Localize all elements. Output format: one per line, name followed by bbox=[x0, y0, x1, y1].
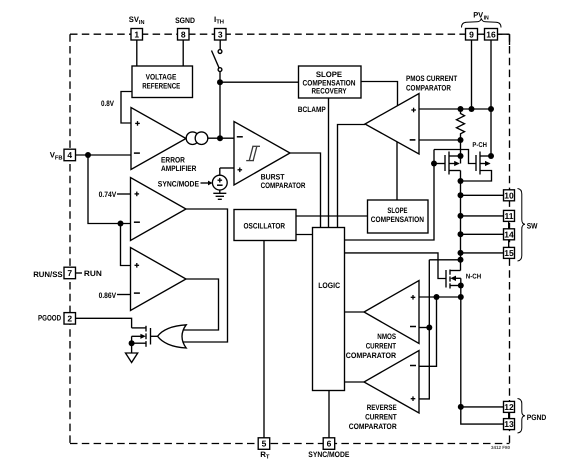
wire 0.74V label line bbox=[117, 193, 131, 195]
pin 16 PVIN box bbox=[485, 29, 498, 41]
svg-text:10: 10 bbox=[504, 190, 514, 200]
node sense fet source bbox=[458, 153, 464, 159]
wire reverse - tap bbox=[419, 297, 437, 366]
svg-text:REFERENCE: REFERENCE bbox=[142, 82, 180, 91]
wire 0.86V label line bbox=[117, 294, 131, 296]
wire pmos - to sense node bbox=[419, 139, 461, 141]
wire error amp output to burst comparator - bbox=[208, 137, 234, 139]
N-CH fet bbox=[446, 270, 461, 289]
node P gate bbox=[431, 161, 437, 167]
svg-text:3412 F80: 3412 F80 bbox=[491, 445, 511, 450]
svg-text:RUN: RUN bbox=[84, 269, 102, 278]
svg-text:P-CH: P-CH bbox=[472, 142, 487, 149]
svg-text:BCLAMP: BCLAMP bbox=[298, 105, 326, 114]
ground pgood bbox=[126, 343, 138, 362]
node SW drain junction bbox=[458, 178, 464, 184]
wire pmos comparator output to logic bbox=[338, 125, 366, 228]
svg-text:SYNC/MODE: SYNC/MODE bbox=[308, 450, 349, 459]
wire BCLAMP to logic bbox=[328, 98, 330, 228]
wire node down to error amp output bbox=[219, 82, 221, 138]
svg-text:N-CH: N-CH bbox=[466, 274, 481, 281]
pin 7 RUN/SS box bbox=[64, 267, 76, 279]
OR gate bbox=[158, 325, 187, 348]
svg-text:SYNC/MODE: SYNC/MODE bbox=[158, 180, 199, 189]
svg-text:3: 3 bbox=[218, 29, 223, 39]
pin 3 ITH box bbox=[215, 29, 227, 41]
slope compensation recovery box bbox=[299, 66, 362, 98]
svg-text:14: 14 bbox=[504, 229, 514, 239]
PGND brace bbox=[518, 399, 526, 434]
sense resistor bbox=[457, 109, 465, 140]
svg-text:NMOS: NMOS bbox=[377, 332, 396, 341]
wire to pin13 bbox=[461, 407, 504, 424]
node rail junctions bbox=[458, 106, 464, 112]
logic box bbox=[313, 228, 345, 391]
svg-text:7: 7 bbox=[67, 268, 72, 278]
pin 4 VFB box bbox=[64, 149, 76, 161]
slope compensation box bbox=[368, 200, 429, 233]
svg-text:REVERSE: REVERSE bbox=[367, 403, 397, 412]
pin 13 PGND box bbox=[504, 419, 515, 430]
svg-text:0.8V: 0.8V bbox=[101, 99, 115, 108]
pin 11 SW box bbox=[504, 210, 515, 221]
hysteresis symbol bbox=[246, 146, 260, 160]
wire to pin15 bbox=[461, 252, 504, 254]
pin 10 SW box bbox=[504, 190, 515, 201]
PGND bus bbox=[460, 286, 462, 407]
wire ITH pin3 to switch bbox=[219, 40, 221, 50]
wire slope compensation to pmos comparator bbox=[396, 142, 398, 200]
wire burst comparator output to logic bbox=[290, 153, 321, 228]
node N source bbox=[458, 283, 464, 289]
pgood pulldown fet bbox=[132, 326, 151, 347]
svg-text:6: 6 bbox=[327, 439, 332, 449]
svg-text:PGND: PGND bbox=[527, 413, 547, 422]
svg-text:8: 8 bbox=[181, 29, 186, 39]
node ITH/BCLAMP junction bbox=[217, 79, 223, 85]
svg-text:RECOVERY: RECOVERY bbox=[312, 87, 348, 96]
svg-text:OSCILLATOR: OSCILLATOR bbox=[244, 222, 286, 231]
svg-text:5: 5 bbox=[262, 439, 267, 449]
node sense - bbox=[458, 137, 464, 143]
node main fet source bbox=[488, 153, 494, 159]
wire pin16 down to P-CH source bbox=[490, 40, 492, 156]
error amplifier bbox=[131, 108, 186, 170]
svg-text:ERROR: ERROR bbox=[161, 155, 185, 164]
svg-text:COMPARATOR: COMPARATOR bbox=[261, 181, 306, 190]
SW bus bbox=[460, 181, 462, 271]
wire VFB pin4 to error amp - bbox=[76, 154, 132, 156]
svg-text:12: 12 bbox=[504, 402, 514, 412]
svg-text:COMPENSATION: COMPENSATION bbox=[371, 215, 424, 224]
wire VFB branch to 0.86V comparator + bbox=[121, 224, 131, 266]
svg-text:9: 9 bbox=[469, 29, 474, 39]
pin 14 SW box bbox=[504, 229, 515, 240]
wire 0.8V reference to error amp + bbox=[121, 92, 132, 124]
wire pmos + to PVIN rail bbox=[419, 108, 491, 110]
wire RUN stub bbox=[76, 272, 83, 274]
wire P-CH gates tied bbox=[434, 163, 445, 165]
wire oscillator to logic bbox=[296, 234, 313, 236]
P-CH sense fet bbox=[445, 152, 461, 182]
wire reverse output to logic bbox=[345, 381, 365, 383]
node VFB branch bbox=[118, 221, 124, 227]
svg-text:0.74V: 0.74V bbox=[99, 190, 117, 199]
node VFB bbox=[85, 152, 91, 158]
wire recovery to pmos comparator bbox=[361, 82, 398, 106]
svg-text:LOGIC: LOGIC bbox=[318, 281, 340, 290]
pin 12 PGND box bbox=[504, 401, 515, 412]
wire RT pin5 to oscillator bbox=[263, 241, 265, 438]
wire OR output to pgood fet gate bbox=[151, 335, 158, 337]
wire to pin11 bbox=[461, 215, 504, 217]
svg-text:2: 2 bbox=[67, 313, 72, 323]
svg-text:COMPARATOR: COMPARATOR bbox=[346, 351, 397, 360]
svg-text:13: 13 bbox=[504, 419, 514, 429]
wire pin8 to voltage reference bbox=[182, 40, 184, 66]
0.74V comparator bbox=[131, 178, 187, 241]
svg-text:PMOS CURRENT: PMOS CURRENT bbox=[406, 74, 457, 83]
wire sense node to sense fet source bbox=[460, 140, 462, 164]
svg-text:VOLTAGE: VOLTAGE bbox=[146, 72, 177, 81]
svg-text:SGND: SGND bbox=[175, 16, 195, 25]
pmos current comparator bbox=[365, 94, 419, 155]
svg-text:4: 4 bbox=[67, 150, 72, 160]
wire nmos + to pgnd bbox=[419, 296, 461, 298]
P-CH main fet bbox=[461, 152, 492, 182]
wire 0.74V output to OR gate bbox=[182, 209, 228, 342]
svg-text:CURRENT: CURRENT bbox=[365, 413, 397, 422]
nmos current comparator bbox=[364, 281, 419, 344]
svg-text:AMPLIFIER: AMPLIFIER bbox=[161, 164, 197, 173]
voltage reference box bbox=[132, 66, 193, 98]
pin 8 SGND box bbox=[178, 29, 190, 41]
pin 1 SVIN box bbox=[131, 29, 143, 41]
svg-text:SLOPE: SLOPE bbox=[387, 206, 407, 215]
wire 0.86V output to OR gate bbox=[182, 279, 219, 330]
svg-text:PV: PV bbox=[473, 11, 484, 20]
0.86V comparator bbox=[131, 248, 187, 311]
node error amp output / ITH bbox=[217, 135, 223, 141]
solid border near PVIN corner bbox=[478, 34, 510, 418]
wire SW sense tap bbox=[429, 259, 460, 261]
svg-text:15: 15 bbox=[504, 248, 514, 258]
ground below sync/mode source bbox=[213, 190, 226, 199]
wire pgood pin2 to fet drain bbox=[76, 318, 132, 328]
SW brace bbox=[518, 189, 526, 262]
wire to pin12 bbox=[461, 406, 504, 408]
svg-text:0.86V: 0.86V bbox=[99, 291, 117, 300]
wire pin1 to voltage reference bbox=[136, 40, 138, 66]
wire node to slope compensation recovery bbox=[220, 81, 299, 83]
pin 15 SW box bbox=[504, 247, 515, 258]
svg-text:PGOOD: PGOOD bbox=[38, 314, 61, 323]
wire nmos output to logic bbox=[345, 311, 365, 313]
reverse current comparator bbox=[364, 351, 419, 414]
svg-text:1: 1 bbox=[134, 29, 139, 39]
svg-text:COMPARATOR: COMPARATOR bbox=[406, 83, 451, 92]
svg-text:SW: SW bbox=[527, 221, 538, 230]
wire VFB down to 0.74V comparator - bbox=[88, 155, 131, 224]
svg-text:COMPARATOR: COMPARATOR bbox=[349, 422, 397, 431]
pin 2 PGOOD box bbox=[64, 313, 76, 325]
svg-text:RUN/SS: RUN/SS bbox=[33, 270, 62, 279]
PVIN brace bbox=[462, 18, 502, 27]
svg-text:CURRENT: CURRENT bbox=[366, 341, 397, 350]
pin 6 SYNC/MODE box bbox=[323, 438, 335, 450]
sync/mode offset source bbox=[201, 168, 235, 190]
wire pin9 down bbox=[471, 40, 473, 109]
svg-text:IN: IN bbox=[484, 16, 489, 22]
pin 5 RT box bbox=[258, 438, 270, 450]
pin 9 PVIN box bbox=[466, 29, 478, 41]
node pgood fet source bbox=[129, 340, 135, 346]
amplifier input polarity marks bbox=[134, 108, 416, 401]
chip boundary dashed border bbox=[70, 34, 510, 443]
switch on ITH line bbox=[212, 50, 222, 83]
wire SYNC/MODE pin6 to logic bbox=[328, 391, 330, 438]
burst comparator bbox=[234, 122, 290, 186]
wire P gate to logic bbox=[433, 150, 435, 164]
current clamp symbol on error amp output bbox=[186, 132, 199, 145]
wire to pin10 bbox=[461, 194, 504, 196]
wire nmos - / reverse + SW tap bbox=[419, 260, 429, 399]
svg-text:16: 16 bbox=[486, 29, 496, 39]
wire N gate from logic bbox=[345, 253, 447, 279]
wire to pin14 bbox=[461, 233, 504, 235]
oscillator box bbox=[234, 210, 296, 241]
svg-text:11: 11 bbox=[505, 211, 514, 221]
wire oscillator to slope compensation bbox=[296, 215, 368, 217]
